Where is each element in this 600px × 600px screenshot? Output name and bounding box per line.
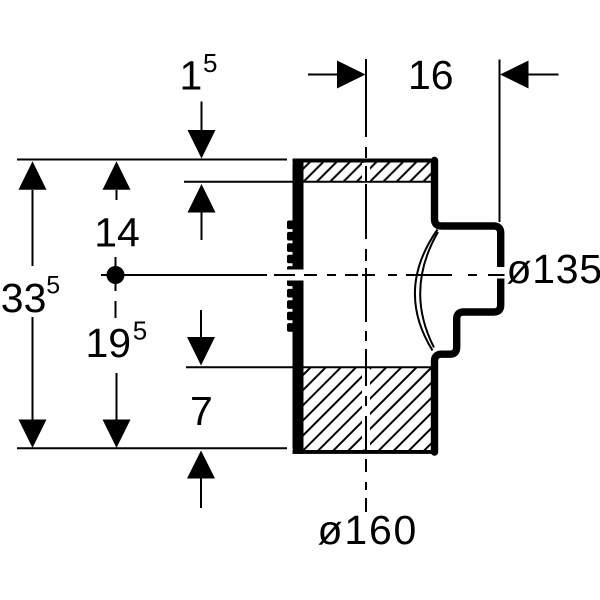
- body outline: bottom edge of sleeve: [293, 450, 438, 454]
- white halo where centre lines cross hatch / wall: [362, 163, 370, 181]
- svg-text:19: 19: [86, 320, 132, 366]
- vertical centre line of pipe (dash-dot): [365, 59, 367, 512]
- extension line: bottom face level (line 4): [17, 447, 287, 449]
- extension line: top face level (line 1): [17, 159, 287, 161]
- svg-text:5: 5: [203, 48, 217, 78]
- dimension 16: left line and right-pointing arrow at centre line: [308, 74, 338, 76]
- hatched cut section: upper band of sleeve wall: [303, 163, 431, 182]
- dimension 1.5: tail, down arrow above line1: [201, 102, 203, 132]
- wire: inner thin boundary line above lower hatch band: [186, 366, 431, 368]
- extension line: spigot end vertical: [499, 60, 501, 223]
- horizontal centre line of branch outlet (dash-dot): [101, 274, 505, 276]
- body outline: top edge of sleeve: [293, 159, 438, 163]
- svg-text:ø135: ø135: [507, 246, 600, 292]
- body outline: left wall solid bar: [293, 159, 304, 454]
- dimension 33.5: tail and down arrow at line4: [32, 317, 34, 420]
- hatched cut section: lower band of sleeve wall: [303, 368, 431, 450]
- svg-text:33: 33: [1, 275, 47, 321]
- svg-text:5: 5: [133, 316, 147, 346]
- dimension 7: tail, down arrow at line3: [200, 310, 202, 338]
- svg-text:ø160: ø160: [318, 507, 419, 553]
- svg-text:5: 5: [46, 271, 60, 299]
- centre reference dot with cross: [115, 257, 117, 291]
- dimension 33.5: up arrow at line1, tail down: [19, 161, 47, 190]
- body outline: right profile with branch spigot steps: [435, 161, 501, 453]
- dimension 7: up arrow at line4, tail below: [187, 451, 215, 479]
- svg-text:1: 1: [180, 53, 203, 99]
- dimension 1.5: up arrow below line2 with tail: [188, 184, 216, 213]
- dimension 19.5: tail and down arrow at line4: [116, 373, 118, 420]
- ribs on left wall (ribbed socket): [287, 221, 294, 332]
- dimension 16: right line and left-pointing arrow at spigot end: [500, 61, 529, 89]
- dimension 14: up arrow at line1, short tail: [103, 161, 131, 190]
- svg-text:16: 16: [408, 52, 454, 98]
- svg-text:7: 7: [190, 388, 213, 434]
- svg-text:14: 14: [94, 210, 140, 256]
- wire: inner thin boundary line below upper hatch band: [184, 181, 431, 183]
- curved inner wall arcs of branch junction: [415, 230, 438, 351]
